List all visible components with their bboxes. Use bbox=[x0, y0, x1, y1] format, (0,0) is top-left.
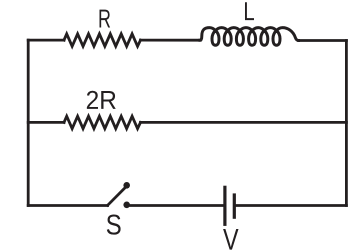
wire top-right segment bbox=[299, 39, 347, 42]
resistor 2R bbox=[64, 116, 141, 128]
wire bottom-left segment bbox=[28, 204, 107, 207]
wire battery to right edge bbox=[236, 204, 347, 207]
switch S upper contact dot bbox=[123, 182, 130, 189]
wire left edge bbox=[27, 40, 30, 205]
label L bbox=[245, 2, 254, 20]
wire top-left segment bbox=[28, 39, 64, 42]
switch S lever bbox=[108, 189, 125, 206]
label S bbox=[107, 215, 121, 235]
wire between R and L bbox=[141, 39, 201, 42]
wire middle-left segment bbox=[28, 121, 64, 124]
wire switch to battery bbox=[130, 204, 224, 207]
wire middle-right segment bbox=[141, 121, 347, 124]
label R bbox=[100, 10, 111, 28]
label 2R bbox=[87, 91, 116, 109]
inductor L bbox=[200, 28, 299, 46]
resistor R bbox=[64, 34, 141, 46]
battery V right plate (short) bbox=[233, 195, 236, 217]
wire right edge bbox=[345, 41, 348, 206]
battery V left plate (long) bbox=[223, 187, 226, 224]
label V bbox=[223, 229, 238, 250]
switch S lower contact dot bbox=[123, 202, 130, 209]
